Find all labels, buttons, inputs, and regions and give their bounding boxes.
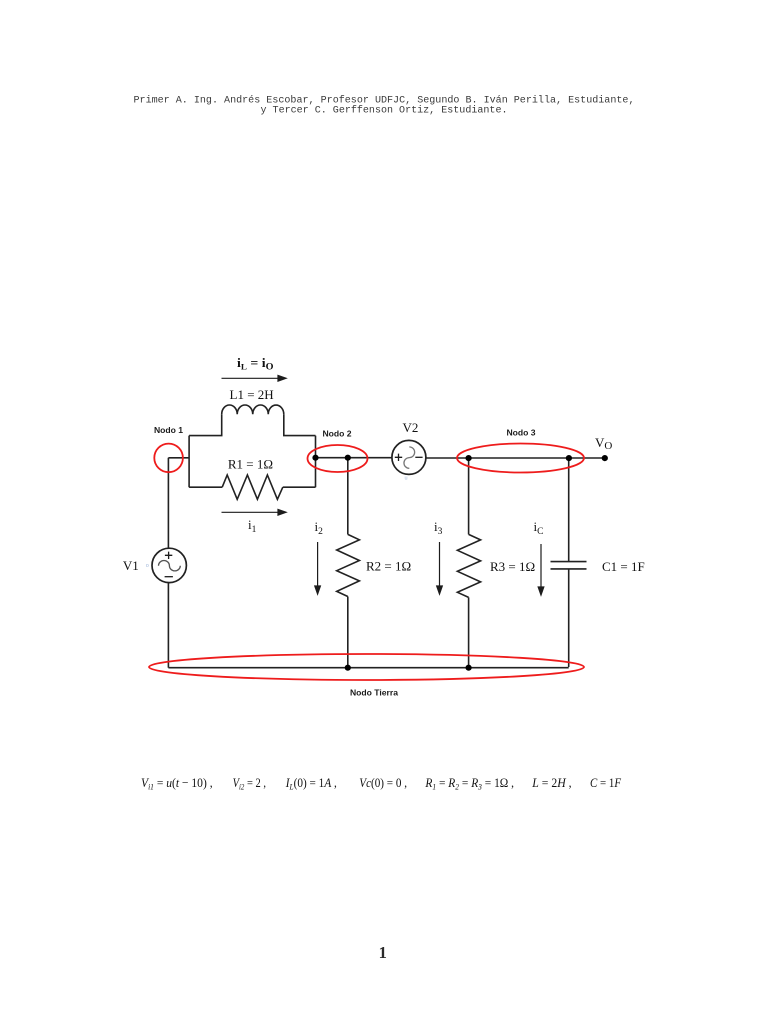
svg-text:i2: i2	[315, 519, 324, 537]
svg-text:R3 = 1Ω: R3 = 1Ω	[490, 559, 535, 574]
svg-text:Nodo 2: Nodo 2	[322, 428, 351, 438]
svg-text:o: o	[146, 563, 149, 569]
svg-text:y Tercer C. Gerffenson Ortiz,: y Tercer C. Gerffenson Ortiz, Estudiante…	[261, 105, 508, 117]
svg-text:IL(0) = 1A ,: IL(0) = 1A ,	[285, 775, 337, 792]
svg-text:Nodo Tierra: Nodo Tierra	[350, 688, 398, 698]
svg-text:R2 = 1Ω: R2 = 1Ω	[366, 558, 411, 573]
svg-text:u: u	[405, 476, 408, 482]
svg-text:R1 = 1Ω: R1 = 1Ω	[228, 456, 273, 471]
svg-text:Vi1 = u(t − 10) ,: Vi1 = u(t − 10) ,	[141, 775, 213, 792]
svg-text:iL = iO: iL = iO	[237, 355, 274, 373]
svg-text:L1 = 2H: L1 = 2H	[230, 387, 274, 402]
svg-text:V1: V1	[123, 558, 139, 573]
svg-text:Vi2 = 2 ,: Vi2 = 2 ,	[233, 775, 266, 792]
svg-text:V2: V2	[403, 420, 419, 435]
svg-text:i1: i1	[248, 517, 257, 535]
svg-text:i3: i3	[434, 519, 443, 537]
svg-text:Nodo 1: Nodo 1	[154, 425, 183, 435]
svg-text:1: 1	[379, 943, 387, 962]
svg-text:VO: VO	[595, 435, 612, 452]
svg-text:C = 1F: C = 1F	[590, 775, 622, 790]
svg-text:R1 = R2 = R3 = 1Ω ,: R1 = R2 = R3 = 1Ω ,	[425, 775, 514, 792]
svg-text:iC: iC	[534, 519, 544, 537]
svg-text:Vc(0) = 0 ,: Vc(0) = 0 ,	[359, 775, 407, 790]
svg-text:C1 = 1F: C1 = 1F	[602, 559, 645, 574]
svg-text:Nodo 3: Nodo 3	[506, 427, 535, 437]
svg-text:L = 2H ,: L = 2H ,	[531, 775, 571, 790]
